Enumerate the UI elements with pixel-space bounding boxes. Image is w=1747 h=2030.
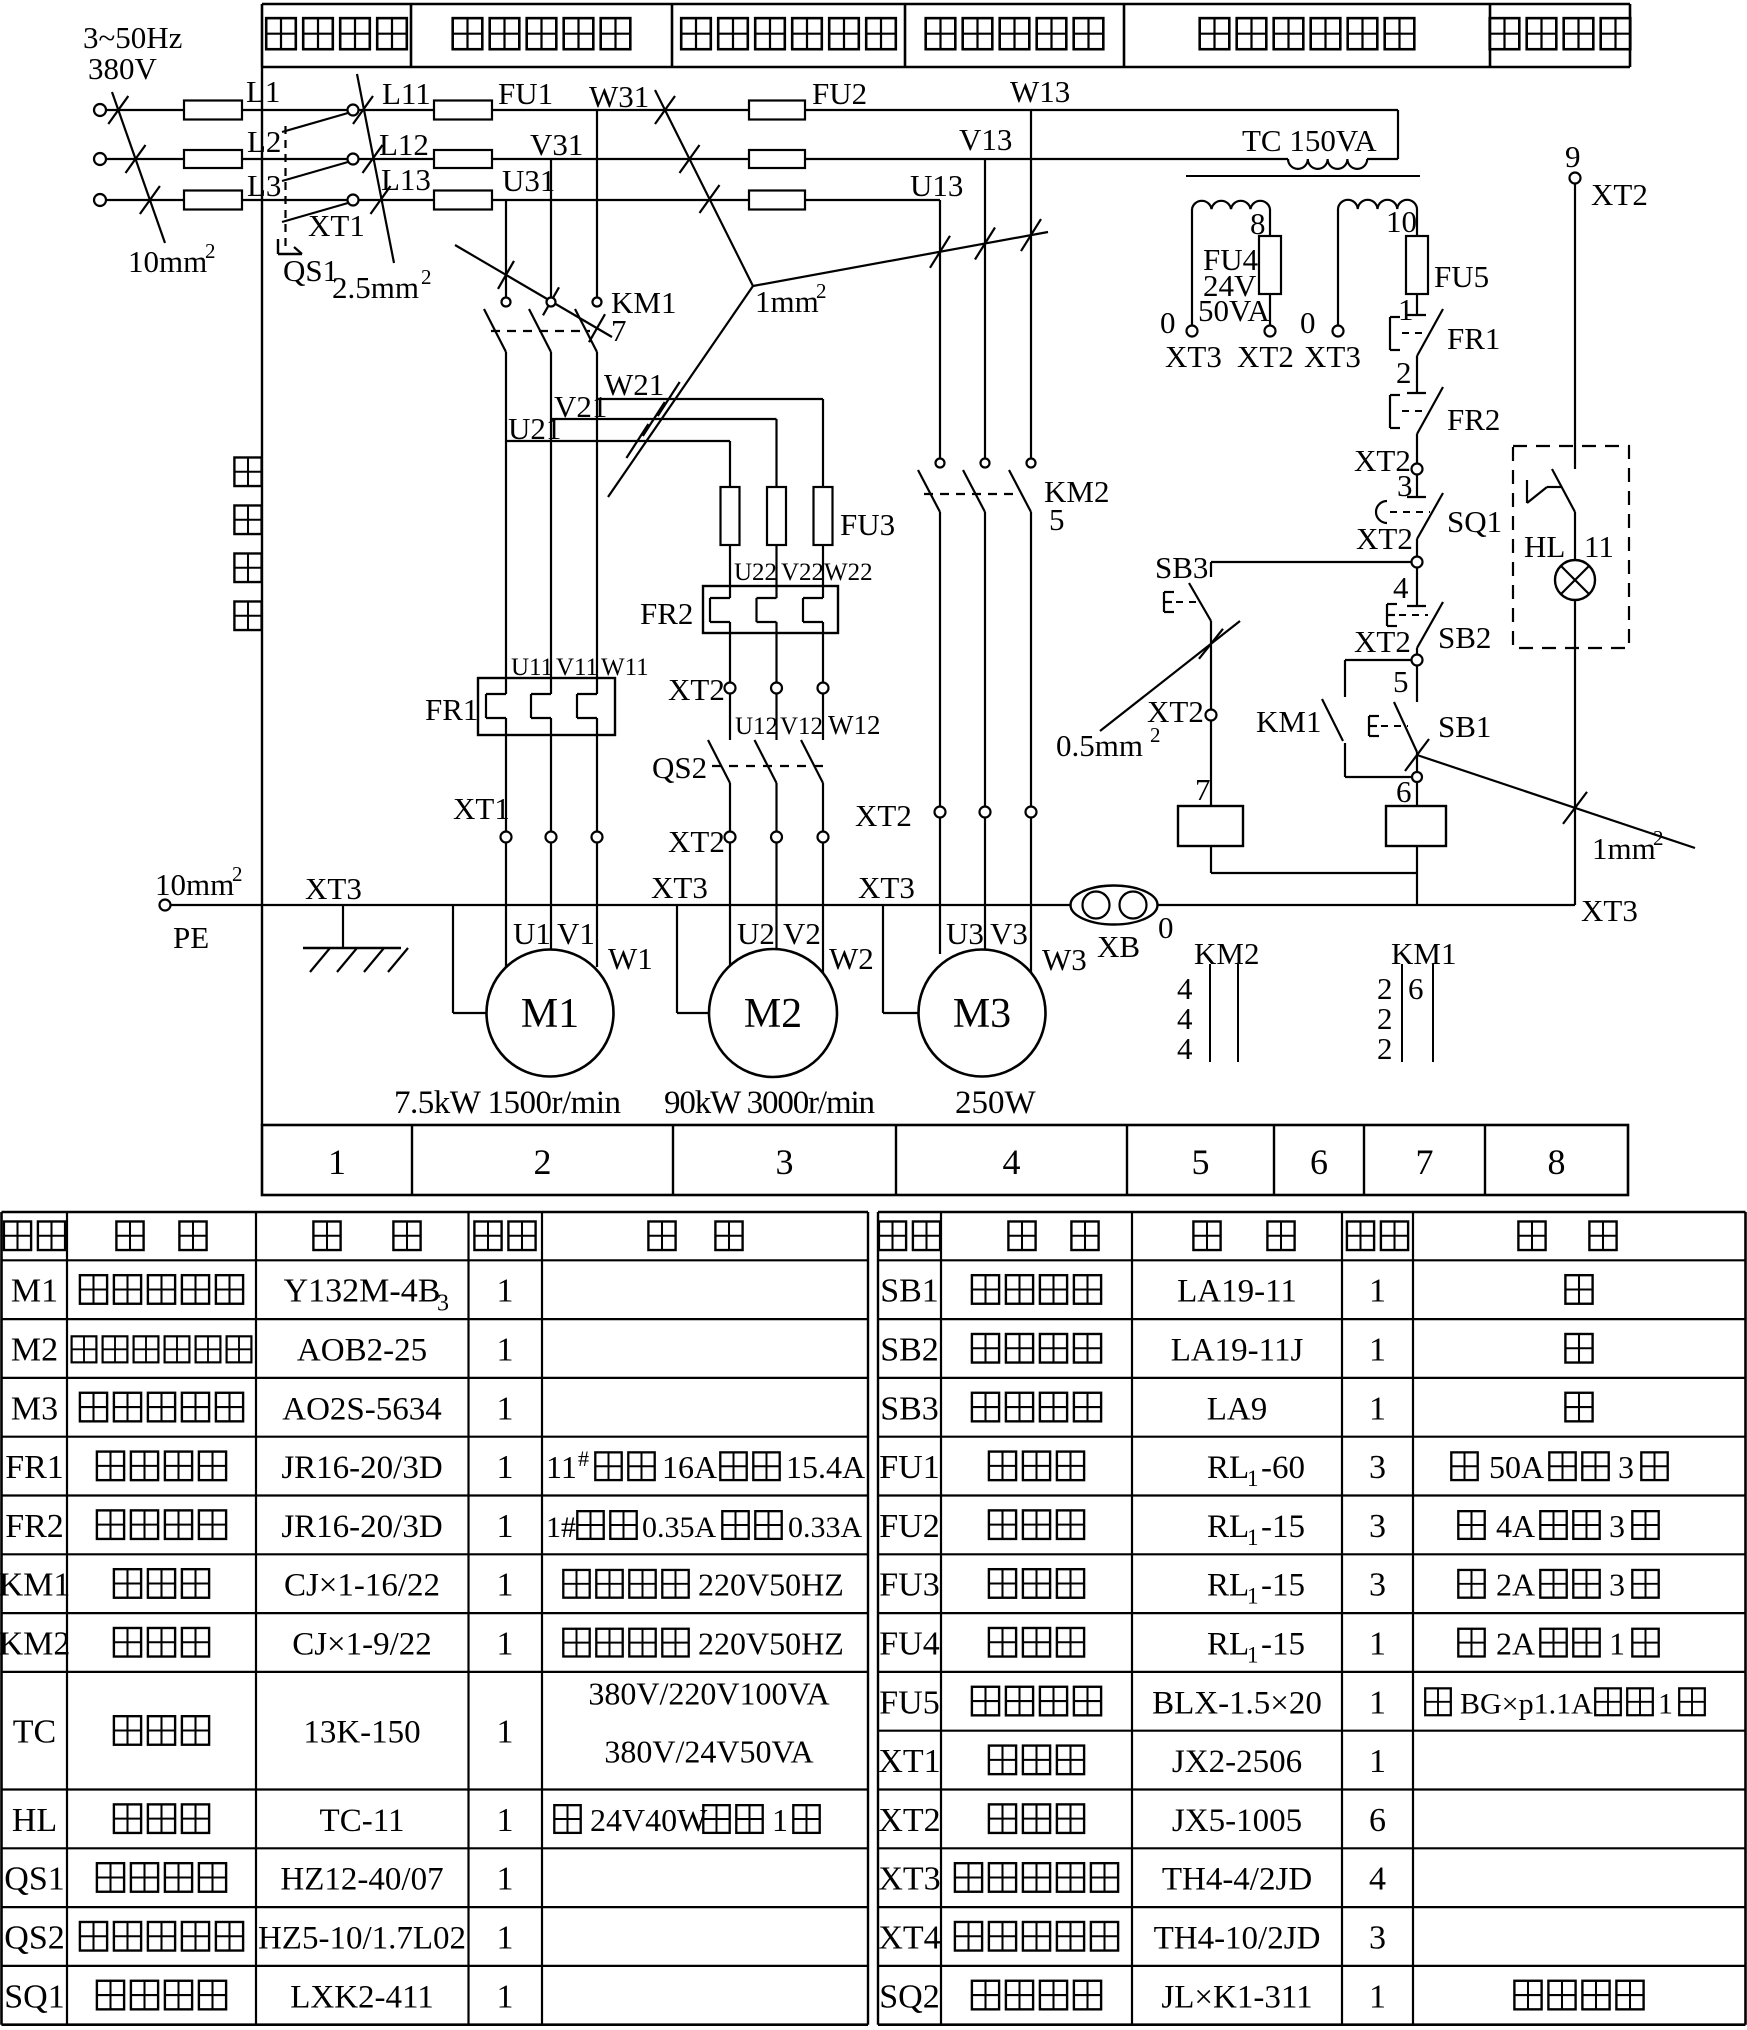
10mm2 cable marker	[108, 92, 215, 279]
svg-text:U3: U3	[946, 916, 984, 951]
svg-text:1mm: 1mm	[1592, 831, 1656, 866]
svg-text:6: 6	[1396, 774, 1412, 809]
svg-text:FR1: FR1	[1447, 321, 1500, 356]
svg-text:JL×K1-311: JL×K1-311	[1161, 1979, 1312, 2015]
wire bus W31-W13 (phase1 top)	[359, 109, 1399, 111]
fuse FU2 (3 cartridges)	[749, 101, 805, 210]
label FR1 (heater)	[425, 692, 478, 727]
svg-text:220V50HZ: 220V50HZ	[698, 1567, 844, 1603]
label KM1 (main)	[611, 285, 676, 320]
svg-text:FR2: FR2	[1447, 402, 1500, 437]
svg-text:L3: L3	[247, 168, 281, 203]
svg-text:HL: HL	[12, 1802, 57, 1839]
terminal XT2 (SB3 branch)	[1147, 694, 1217, 729]
transformer TC secondary 2 (220V)	[1333, 200, 1418, 337]
svg-text:-15: -15	[1261, 1568, 1305, 1604]
svg-text:HZ5-10/1.7L02: HZ5-10/1.7L02	[258, 1921, 466, 1957]
svg-text:V21: V21	[554, 389, 607, 424]
wire lamp drop upper	[1574, 184, 1576, 470]
svg-text:2: 2	[421, 265, 432, 289]
svg-text:10mm: 10mm	[128, 244, 207, 279]
labels W21 V21 U21	[508, 367, 664, 446]
svg-text:13K-150: 13K-150	[303, 1715, 420, 1751]
svg-text:SQ2: SQ2	[879, 1978, 939, 2015]
contactor KM2 main contacts	[918, 459, 1036, 513]
svg-text:3: 3	[1369, 1449, 1386, 1486]
svg-text:FU4: FU4	[879, 1626, 939, 1663]
labels W13 V13 U13	[910, 74, 1070, 203]
svg-text:FU3: FU3	[840, 507, 895, 542]
label KM2 (main)	[1044, 474, 1109, 509]
button SB3 (NO rapid)	[1164, 562, 1211, 621]
svg-text:0.33A: 0.33A	[788, 1511, 863, 1544]
svg-text:1: 1	[1247, 1525, 1259, 1550]
svg-text:7: 7	[1195, 772, 1211, 807]
svg-text:TC: TC	[13, 1714, 56, 1751]
supply terminals L1 L2 L3	[94, 104, 106, 206]
svg-text:1mm: 1mm	[755, 284, 819, 319]
svg-text:2: 2	[1396, 355, 1412, 390]
svg-text:3: 3	[776, 1142, 794, 1182]
parts table grid right	[878, 1212, 1746, 2025]
wire bus V31-V13 (phase2)	[359, 158, 1289, 160]
svg-text:-60: -60	[1261, 1450, 1305, 1486]
svg-text:XT3: XT3	[1165, 339, 1222, 374]
wires FU3 outputs	[730, 545, 823, 598]
wire bus U31-U13 (phase3)	[359, 199, 941, 201]
svg-text:LXK2-411: LXK2-411	[290, 1979, 434, 2015]
wire W-phase M1 branch	[596, 352, 598, 694]
svg-text:FU2: FU2	[879, 1508, 939, 1545]
fuse FU1 (3 cartridges)	[434, 101, 492, 210]
PE tap to M1	[453, 905, 487, 1013]
svg-text:4: 4	[1177, 1031, 1193, 1066]
wire drop to KM1 pole1 (U31)	[505, 200, 507, 297]
svg-text:XT2: XT2	[878, 1802, 940, 1839]
svg-text:PE: PE	[173, 920, 209, 955]
row FR1	[5, 1446, 865, 1486]
lamp HL	[1524, 512, 1614, 600]
svg-text:8: 8	[1250, 206, 1266, 241]
svg-text:QS1: QS1	[283, 253, 338, 288]
row XT1	[878, 1743, 1386, 1780]
row M2	[11, 1332, 514, 1369]
svg-text:U21: U21	[508, 411, 561, 446]
svg-text:5: 5	[1049, 502, 1065, 537]
svg-text:U13: U13	[910, 168, 963, 203]
svg-text:3: 3	[1609, 1508, 1625, 1544]
svg-text:HZ12-40/07: HZ12-40/07	[280, 1862, 443, 1898]
svg-text:6: 6	[1310, 1142, 1328, 1182]
row QS1	[4, 1861, 513, 1898]
wires FR2 to XT2	[730, 622, 823, 683]
svg-text:6: 6	[1369, 1802, 1386, 1839]
svg-text:U1: U1	[513, 916, 551, 951]
wire phase L1	[106, 109, 348, 111]
svg-text:XT2: XT2	[668, 824, 725, 859]
svg-text:3: 3	[1618, 1449, 1634, 1485]
label XT3 (right end)	[1581, 893, 1638, 928]
svg-text:FU1: FU1	[498, 76, 553, 111]
svg-text:XT3: XT3	[305, 871, 362, 906]
svg-text:FU5: FU5	[1434, 259, 1489, 294]
svg-text:JX5-1005: JX5-1005	[1172, 1803, 1302, 1839]
svg-text:V2: V2	[783, 916, 821, 951]
svg-text:XB: XB	[1097, 929, 1140, 964]
svg-text:4: 4	[1393, 570, 1409, 605]
svg-text:XT3: XT3	[1304, 339, 1361, 374]
svg-text:1: 1	[1369, 1978, 1386, 2015]
svg-text:KM2: KM2	[1194, 936, 1259, 971]
svg-text:KM2: KM2	[0, 1626, 70, 1663]
svg-text:XT4: XT4	[878, 1920, 940, 1957]
svg-text:RL: RL	[1207, 1568, 1249, 1604]
row FU3	[879, 1567, 1658, 1609]
svg-text:U12: U12	[735, 713, 778, 740]
row FU5	[879, 1684, 1705, 1721]
svg-text:2: 2	[232, 862, 243, 886]
2.5mm2 marker (steep) at QS1 outputs	[353, 74, 394, 263]
svg-text:CJ×1-9/22: CJ×1-9/22	[292, 1627, 432, 1663]
svg-text:QS2: QS2	[4, 1920, 64, 1957]
contactor KM1 main contacts	[484, 298, 602, 353]
label FR2 (heater)	[640, 596, 693, 631]
svg-text:2: 2	[816, 279, 827, 303]
wire drop V13	[984, 159, 986, 459]
svg-text:AO2S-5634: AO2S-5634	[282, 1391, 442, 1427]
header cell 机床控制系统	[1200, 18, 1415, 49]
labels U1 V1 W1	[513, 916, 653, 976]
svg-text:L1: L1	[246, 74, 280, 109]
svg-text:SB2: SB2	[1438, 620, 1491, 655]
table headers right	[879, 1221, 1617, 1250]
svg-text:9: 9	[1565, 139, 1581, 174]
svg-text:1: 1	[1369, 1332, 1386, 1369]
svg-text:JX2-2506: JX2-2506	[1172, 1744, 1302, 1780]
PE earth bus	[155, 862, 1575, 955]
0.5mm2 marker	[1056, 621, 1240, 763]
coil KM1	[1386, 782, 1446, 846]
svg-text:#: #	[578, 1446, 589, 1471]
row FU1	[879, 1449, 1667, 1491]
svg-text:V31: V31	[530, 127, 583, 162]
svg-text:2: 2	[205, 239, 216, 263]
row SQ2	[879, 1978, 1643, 2015]
svg-text:L11: L11	[382, 76, 431, 111]
svg-text:1: 1	[497, 1332, 514, 1369]
svg-text:FU1: FU1	[879, 1449, 939, 1486]
svg-text:7: 7	[611, 313, 627, 348]
svg-text:1: 1	[1369, 1626, 1386, 1663]
svg-text:3: 3	[1369, 1920, 1386, 1957]
svg-text:L13: L13	[381, 162, 431, 197]
svg-text:8: 8	[1548, 1142, 1566, 1182]
row SB2	[880, 1332, 1592, 1369]
svg-text:TC-11: TC-11	[320, 1803, 405, 1839]
motor rating labels	[394, 1085, 1037, 1121]
row XT3	[878, 1861, 1386, 1898]
svg-text:6: 6	[1408, 971, 1424, 1006]
svg-text:24V40W: 24V40W	[590, 1802, 708, 1838]
svg-text:15.4A: 15.4A	[786, 1449, 865, 1485]
motor M2	[709, 949, 837, 1077]
svg-text:1: 1	[497, 1920, 514, 1957]
svg-text:1#: 1#	[546, 1511, 576, 1544]
svg-text:1: 1	[497, 1508, 514, 1545]
svg-text:1: 1	[497, 1273, 514, 1310]
label FU1	[498, 76, 553, 111]
row KM2	[0, 1626, 844, 1663]
wires QS2 to XT2 lower	[730, 783, 823, 832]
svg-text:W1: W1	[608, 941, 653, 976]
svg-text:2A: 2A	[1496, 1567, 1535, 1603]
coil bottom bus to PE	[1211, 846, 1417, 905]
wires XT1 to motor M1	[506, 843, 597, 968]
fuse FU5	[1406, 236, 1428, 294]
svg-text:SB1: SB1	[1438, 709, 1491, 744]
svg-text:W21: W21	[604, 367, 664, 402]
wire tap V21	[551, 419, 777, 487]
svg-text:M2: M2	[744, 991, 802, 1037]
labels U12 V12 W12	[735, 710, 880, 740]
socket XB	[1071, 886, 1174, 965]
motor M1	[487, 950, 614, 1077]
label FU2	[812, 76, 867, 111]
row QS2	[4, 1920, 513, 1957]
label QS1	[283, 253, 338, 288]
svg-text:SB3: SB3	[1155, 550, 1208, 585]
svg-text:FR1: FR1	[425, 692, 478, 727]
header cell 冷却泵电动机	[681, 18, 896, 49]
1mm2 marker on lamp/control drop	[1405, 739, 1695, 866]
terminals XT1	[453, 791, 603, 843]
svg-text:QS2: QS2	[652, 750, 707, 785]
wire tap U21	[506, 441, 730, 487]
wires FR1 to XT1	[506, 718, 597, 832]
2.5mm2 cable marker at KM1 feed	[332, 245, 612, 342]
wires XT2 to motor M2	[730, 843, 823, 974]
transformer TC secondary 1 (24V)	[1187, 201, 1276, 337]
wire drop to KM1 pole3 (W31)	[596, 110, 598, 297]
svg-text:FR1: FR1	[5, 1449, 64, 1486]
wire phase L2	[106, 158, 348, 160]
svg-text:1: 1	[1247, 1643, 1259, 1668]
svg-text:4A: 4A	[1496, 1508, 1535, 1544]
svg-text:W3: W3	[1042, 942, 1087, 977]
switch SA (lamp switch)	[1527, 469, 1575, 512]
svg-text:1: 1	[497, 1449, 514, 1486]
svg-text:4: 4	[1003, 1142, 1021, 1182]
thermal relay FR2 heater elements	[703, 586, 838, 633]
row SQ1	[4, 1978, 513, 2015]
contact FR1 (NC)	[1390, 292, 1500, 356]
terminal XT2 (after SQ1)	[1356, 521, 1423, 568]
svg-text:M3: M3	[11, 1390, 58, 1427]
wires XT2 to QS2	[730, 694, 823, 741]
labels L1 L2 L3	[246, 74, 281, 203]
wire FR2 to XT2	[1416, 434, 1418, 464]
svg-text:2.5mm: 2.5mm	[332, 270, 419, 305]
svg-text:1: 1	[1369, 1684, 1386, 1721]
svg-text:-15: -15	[1261, 1627, 1305, 1663]
svg-text:FU3: FU3	[879, 1567, 939, 1604]
svg-text:50VA: 50VA	[1198, 293, 1270, 328]
wire to SB2, pin 4	[1393, 568, 1417, 607]
node 6	[1396, 752, 1422, 809]
svg-text:XT2: XT2	[855, 798, 912, 833]
row SB3	[880, 1390, 1592, 1427]
supply label 3~50Hz 380V	[83, 20, 182, 86]
switch SQ1 (NC limit switch)	[1376, 493, 1502, 539]
svg-text:XT3: XT3	[1581, 893, 1638, 928]
label XT3 (mid M3)	[858, 870, 915, 905]
svg-text:BG×p1.1A: BG×p1.1A	[1460, 1687, 1593, 1720]
label 5 (KM2 main)	[1049, 502, 1065, 537]
svg-text:HL: HL	[1524, 529, 1565, 564]
wire FR1-FR2	[1396, 355, 1417, 393]
svg-text:380V: 380V	[88, 51, 158, 86]
svg-text:0.5mm: 0.5mm	[1056, 728, 1143, 763]
label XT3 (mid M2)	[651, 870, 708, 905]
labels 10 FU5 0 XT3	[1300, 204, 1489, 374]
svg-text:4: 4	[1369, 1861, 1386, 1898]
svg-text:Y132M-4B: Y132M-4B	[284, 1273, 441, 1310]
svg-text:3: 3	[1369, 1508, 1386, 1545]
svg-text:1: 1	[1247, 1466, 1259, 1491]
svg-text:U31: U31	[502, 163, 555, 198]
contact tally KM1	[1377, 936, 1456, 1066]
svg-text:0: 0	[1300, 305, 1316, 340]
svg-text:50A: 50A	[1489, 1449, 1544, 1485]
svg-text:10: 10	[1386, 204, 1417, 239]
header cell 快移电动机	[926, 18, 1104, 49]
wire SB3 branch to node	[1211, 561, 1412, 563]
labels U3 V3 W3	[946, 916, 1087, 977]
terminals XT2 (M2 branch lower)	[668, 824, 829, 859]
svg-text:11: 11	[546, 1449, 577, 1485]
svg-text:XT1: XT1	[453, 791, 510, 826]
svg-text:M3: M3	[953, 991, 1011, 1037]
svg-text:AOB2-25: AOB2-25	[297, 1333, 427, 1369]
svg-text:1: 1	[1247, 1584, 1259, 1609]
svg-text:U22: U22	[734, 559, 777, 586]
labels FU4 24V 50VA 8 0 XT3 XT2	[1160, 206, 1294, 374]
terminal XT2 pin 9 (lamp supply)	[1565, 139, 1648, 212]
svg-text:3: 3	[1369, 1567, 1386, 1604]
parts table grid left	[2, 1212, 869, 2025]
switch QS2 (3-pole)	[708, 740, 830, 783]
svg-text:5: 5	[1192, 1142, 1210, 1182]
svg-text:LA9: LA9	[1207, 1391, 1268, 1427]
svg-text:-15: -15	[1261, 1509, 1305, 1545]
terminal XT2 (after FR2)	[1354, 443, 1423, 478]
svg-text:XT3: XT3	[858, 870, 915, 905]
svg-text:XT2: XT2	[1237, 339, 1294, 374]
svg-text:1: 1	[1369, 1390, 1386, 1427]
svg-text:V3: V3	[990, 916, 1028, 951]
svg-text:M1: M1	[11, 1273, 58, 1310]
svg-text:7.5kW 1500r/min: 7.5kW 1500r/min	[394, 1085, 621, 1121]
svg-text:FU2: FU2	[812, 76, 867, 111]
label SB3	[1155, 550, 1208, 585]
table headers left 代号 名称 型号 数量 备注	[4, 1221, 743, 1250]
labels U11 V11 W11	[511, 654, 649, 681]
svg-text:W22: W22	[824, 559, 873, 586]
svg-text:1: 1	[497, 1861, 514, 1898]
ground symbol	[303, 905, 408, 972]
label XT3 (left)	[305, 871, 362, 906]
lighting box (dashed)	[1513, 446, 1629, 648]
svg-text:KM1: KM1	[0, 1567, 70, 1604]
button SB1 (NO start)	[1369, 666, 1491, 753]
terminals XT2 (M2 branch upper)	[668, 672, 829, 707]
labels W31 V31 U31	[502, 79, 649, 198]
fuse FU4	[1259, 236, 1281, 294]
row FR2	[5, 1508, 862, 1545]
svg-text:XT3: XT3	[878, 1861, 940, 1898]
row KM1	[0, 1567, 844, 1604]
header cell 开关电源	[266, 18, 407, 49]
thermal relay FR1 heater elements	[478, 678, 615, 735]
svg-text:XT2: XT2	[668, 672, 725, 707]
svg-text:BLX-1.5×20: BLX-1.5×20	[1152, 1685, 1322, 1721]
coil KM2	[1178, 806, 1243, 846]
svg-text:1: 1	[1609, 1626, 1625, 1662]
svg-text:SB1: SB1	[880, 1273, 939, 1310]
svg-text:U2: U2	[737, 916, 775, 951]
row FU2	[879, 1508, 1658, 1550]
label XT1 (at QS1)	[308, 208, 365, 243]
row HL	[12, 1802, 820, 1839]
svg-text:SQ1: SQ1	[1447, 504, 1502, 539]
header row: section title boxes	[262, 4, 1630, 67]
svg-text:1: 1	[497, 1390, 514, 1427]
svg-text:V1: V1	[557, 916, 595, 951]
svg-text:1: 1	[772, 1802, 788, 1838]
switch QS1 (3-pole knife switch)	[278, 105, 359, 255]
labels L11 L12 L13	[379, 76, 431, 197]
svg-text:SB2: SB2	[880, 1332, 939, 1369]
svg-text:FR2: FR2	[5, 1508, 64, 1545]
svg-text:10mm: 10mm	[155, 867, 234, 902]
svg-text:3: 3	[1609, 1567, 1625, 1603]
svg-text:5: 5	[1393, 664, 1409, 699]
svg-text:TH4-10/2JD: TH4-10/2JD	[1154, 1921, 1321, 1957]
svg-text:1: 1	[497, 1714, 514, 1751]
svg-text:QS1: QS1	[4, 1861, 64, 1898]
row SB1	[880, 1273, 1592, 1310]
wires XT2 to motor M3	[940, 818, 1031, 974]
svg-text:W31: W31	[589, 79, 649, 114]
svg-text:0: 0	[1160, 305, 1176, 340]
PE tap to M3	[883, 905, 919, 1013]
svg-text:1: 1	[1398, 292, 1414, 327]
svg-text:16A: 16A	[662, 1449, 717, 1485]
svg-text:1: 1	[497, 1626, 514, 1663]
svg-text:FU5: FU5	[879, 1684, 939, 1721]
svg-text:11: 11	[1584, 529, 1614, 564]
wire drop W13	[1030, 110, 1032, 459]
svg-text:FR2: FR2	[640, 596, 693, 631]
fuse FU3 (3 cartridges, vertical)	[721, 487, 833, 545]
svg-text:KM1: KM1	[1256, 704, 1321, 739]
svg-text:LA19-11J: LA19-11J	[1171, 1333, 1304, 1369]
svg-text:380V/220V100VA: 380V/220V100VA	[588, 1676, 829, 1712]
row M3	[11, 1390, 514, 1427]
equipment boundary line 设备界线	[234, 67, 262, 1125]
svg-text:M1: M1	[521, 991, 579, 1037]
svg-text:XT3: XT3	[651, 870, 708, 905]
